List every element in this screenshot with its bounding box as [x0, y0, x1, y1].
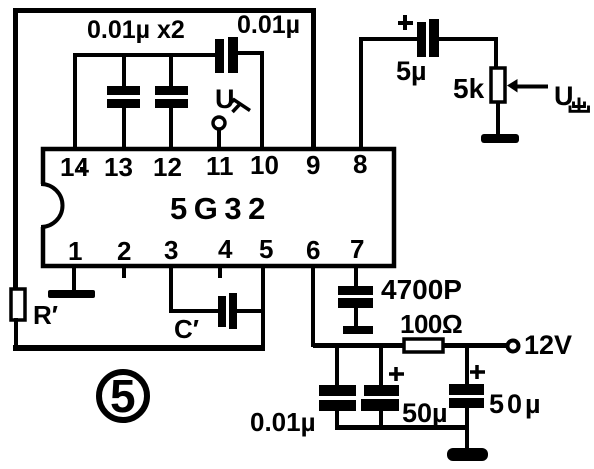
wire pin 2 stub — [122, 264, 126, 278]
svg-text:0.01µ x2: 0.01µ x2 — [87, 16, 185, 44]
wire pin 4 stub — [218, 264, 222, 278]
IC U1 5G32 body — [43, 149, 394, 266]
potentiometer wiper arrow — [507, 79, 548, 93]
svg-text:1: 1 — [68, 236, 82, 266]
svg-text:100Ω: 100Ω — [400, 309, 462, 339]
wire pot top lead — [494, 39, 498, 69]
resistor R' — [11, 289, 25, 320]
svg-text:4: 4 — [218, 234, 233, 264]
svg-text:12V: 12V — [524, 330, 572, 360]
resistor 100 ohm — [404, 339, 443, 352]
pin 14 label — [60, 152, 89, 182]
wire left rail (top corner down to R') — [13, 8, 18, 291]
capacitor C' — [218, 293, 237, 329]
wire bottom rail (R' to pin 5 branch) — [13, 345, 265, 351]
wire bottom join — [335, 425, 467, 430]
wire supply rail left — [313, 343, 405, 348]
label U lambda — [215, 84, 250, 114]
svg-text:2: 2 — [117, 236, 131, 266]
svg-text:5: 5 — [110, 370, 136, 422]
ground (bottom right) — [447, 448, 488, 461]
wire C6 top lead — [335, 348, 339, 386]
wire pin 5 vertical — [261, 264, 265, 347]
ground (pin 1) — [48, 290, 95, 298]
figure number 5 — [99, 370, 147, 422]
wire C7 bottom lead — [379, 411, 383, 429]
wire pin 3 to C' — [169, 309, 218, 313]
svg-text:10: 10 — [250, 150, 279, 180]
wire C' to pin 5 vertical — [237, 309, 263, 313]
wire pot bottom lead — [496, 102, 500, 135]
svg-text:3: 3 — [164, 235, 178, 265]
svg-text:11: 11 — [206, 151, 234, 181]
wire supply rail right — [443, 343, 507, 348]
potentiometer RP 5k — [491, 68, 505, 102]
svg-text:R′: R′ — [33, 300, 58, 330]
svg-text:0.01µ: 0.01µ — [237, 11, 300, 39]
svg-text:9: 9 — [306, 150, 320, 180]
C5 end bar — [343, 326, 373, 334]
wire pin 8 vertical — [359, 39, 363, 149]
wire pin 6 vertical — [311, 264, 315, 347]
wire terminal to pin 11 — [217, 129, 221, 149]
capacitor C7 50u plus — [389, 367, 404, 381]
svg-text:7: 7 — [350, 234, 364, 264]
wire C5 bottom lead — [354, 308, 358, 329]
svg-text:C′: C′ — [174, 314, 199, 344]
label U-out (Chinese chu) — [554, 81, 589, 111]
svg-text:5k: 5k — [453, 73, 485, 104]
svg-text:6: 6 — [306, 235, 320, 265]
svg-text:5G32: 5G32 — [170, 191, 272, 226]
svg-text:50µ: 50µ — [402, 398, 448, 428]
capacitor C3 0.01u series — [215, 37, 238, 73]
wire C7 top lead — [379, 348, 383, 386]
capacitor C7 50u — [361, 385, 399, 411]
wire C8 bottom lead — [465, 408, 469, 452]
svg-text:50µ: 50µ — [489, 389, 544, 419]
capacitor C6 0.01u bottom — [319, 385, 356, 411]
capacitor C2 0.01u (pin 12) — [155, 57, 188, 149]
wire C8 top lead — [465, 348, 469, 386]
wire C3 right to pin 10 — [238, 51, 264, 55]
capacitor C8 50u plus — [470, 365, 485, 379]
svg-text:4700P: 4700P — [381, 274, 462, 305]
wire pin 8 top to C4 — [359, 37, 417, 41]
wire top feedback (pin 9 to left rail) — [13, 8, 316, 13]
wire inner loop top (pin 14 rail to C3) — [73, 53, 219, 57]
wire pin 1 lead — [72, 264, 76, 292]
wire pin 3 vertical — [169, 264, 173, 313]
capacitor C5 4700P — [338, 286, 373, 308]
wire C4 to potentiometer — [439, 37, 498, 41]
capacitor C4 5u — [417, 19, 439, 57]
node 12V terminal — [508, 341, 519, 352]
ground (potentiometer) — [481, 134, 519, 143]
svg-text:12: 12 — [153, 152, 182, 182]
capacitor C4 5u plus sign — [398, 15, 413, 30]
svg-text:0.01µ: 0.01µ — [250, 407, 316, 437]
wire R' bottom to bottom rail — [14, 318, 18, 348]
capacitor C8 50u — [449, 384, 484, 408]
svg-text:U: U — [215, 84, 235, 114]
wire inner loop left vertical (to pin 14) — [73, 53, 77, 149]
wire C6 bottom lead — [335, 411, 339, 429]
wire pin 10 vertical — [260, 51, 264, 149]
wire pin 9 vertical — [311, 8, 316, 149]
wire pin 7 lead — [354, 264, 358, 288]
svg-text:8: 8 — [353, 149, 367, 179]
node U-out terminal circle — [213, 117, 225, 129]
IC notch — [38, 184, 63, 227]
capacitor C1 0.01u (pin 13) — [107, 57, 140, 149]
svg-text:5: 5 — [259, 234, 273, 264]
svg-text:13: 13 — [104, 152, 133, 182]
svg-text:5µ: 5µ — [396, 56, 427, 86]
